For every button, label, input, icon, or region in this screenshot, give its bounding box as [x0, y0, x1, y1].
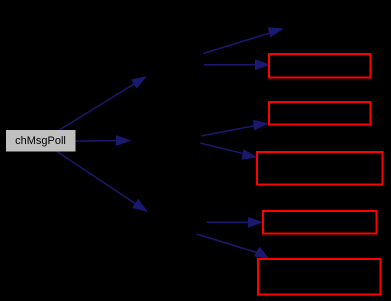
red node 4 — [263, 211, 377, 234]
edge B->red3 — [200, 143, 258, 160]
svg-text:chMsgPoll: chMsgPoll — [15, 135, 66, 147]
edge A->D (to top invisible node) — [203, 27, 284, 53]
red node 1 — [269, 54, 371, 78]
edge A->red1 — [204, 59, 271, 70]
node chMsgPoll (grey box) — [6, 130, 76, 152]
red node 3 — [257, 152, 383, 185]
edge C->red4 — [207, 217, 264, 228]
edge chMsgPoll->A (up-right) — [60, 76, 147, 130]
red node 5 — [258, 259, 381, 295]
edge chMsgPoll->B (horizontal) — [75, 135, 132, 146]
edge B->red2 — [201, 120, 269, 136]
red node 2 — [269, 102, 371, 125]
edge C->red5 — [197, 234, 271, 260]
edge chMsgPoll->C (down-right) — [57, 152, 148, 213]
